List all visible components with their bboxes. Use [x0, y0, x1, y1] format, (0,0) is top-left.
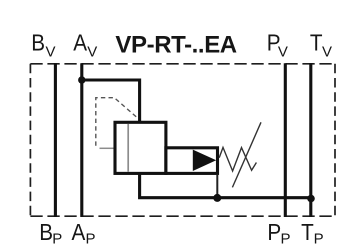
flow triangle	[193, 150, 216, 171]
port line Bv-Bp	[54, 63, 57, 217]
enclosure dashed border bottom	[30, 215, 335, 217]
svg-text:P: P	[52, 231, 62, 248]
svg-text:T: T	[301, 219, 314, 245]
svg-text:V: V	[87, 44, 97, 61]
wire from A to valve top	[82, 80, 140, 122]
port line Tv-Tp	[309, 63, 312, 217]
enclosure dashed border right	[334, 64, 336, 216]
svg-text:A: A	[71, 219, 85, 245]
node junction on A line	[78, 76, 85, 83]
svg-text:B: B	[31, 29, 45, 55]
thin drop line from small box	[216, 175, 218, 198]
enclosure dashed border top	[30, 63, 335, 65]
pilot stub gray line	[100, 147, 115, 149]
enclosure dashed border left	[29, 64, 31, 216]
port line Av-Ap	[80, 63, 83, 217]
valve main body box	[115, 122, 166, 173]
svg-text:P: P	[281, 231, 291, 248]
svg-text:P: P	[267, 219, 281, 245]
valve small box	[166, 148, 218, 174]
svg-text:A: A	[73, 29, 87, 55]
svg-text:V: V	[278, 44, 288, 61]
node junction below small box	[213, 194, 221, 202]
bottom wire to T	[140, 173, 311, 197]
valve inner gray line	[127, 124, 129, 172]
svg-text:B: B	[39, 219, 53, 245]
port line Pv-Pp	[284, 63, 287, 217]
svg-text:VP-RT-..EA: VP-RT-..EA	[115, 32, 236, 59]
svg-text:T: T	[310, 29, 323, 55]
adjustment arrow	[232, 122, 261, 187]
spring	[219, 147, 256, 171]
svg-text:V: V	[322, 44, 332, 61]
svg-text:P: P	[86, 231, 96, 248]
pilot dashed line	[96, 98, 139, 146]
svg-text:P: P	[314, 231, 324, 248]
svg-text:V: V	[46, 44, 56, 61]
node junction on T line	[307, 195, 315, 203]
